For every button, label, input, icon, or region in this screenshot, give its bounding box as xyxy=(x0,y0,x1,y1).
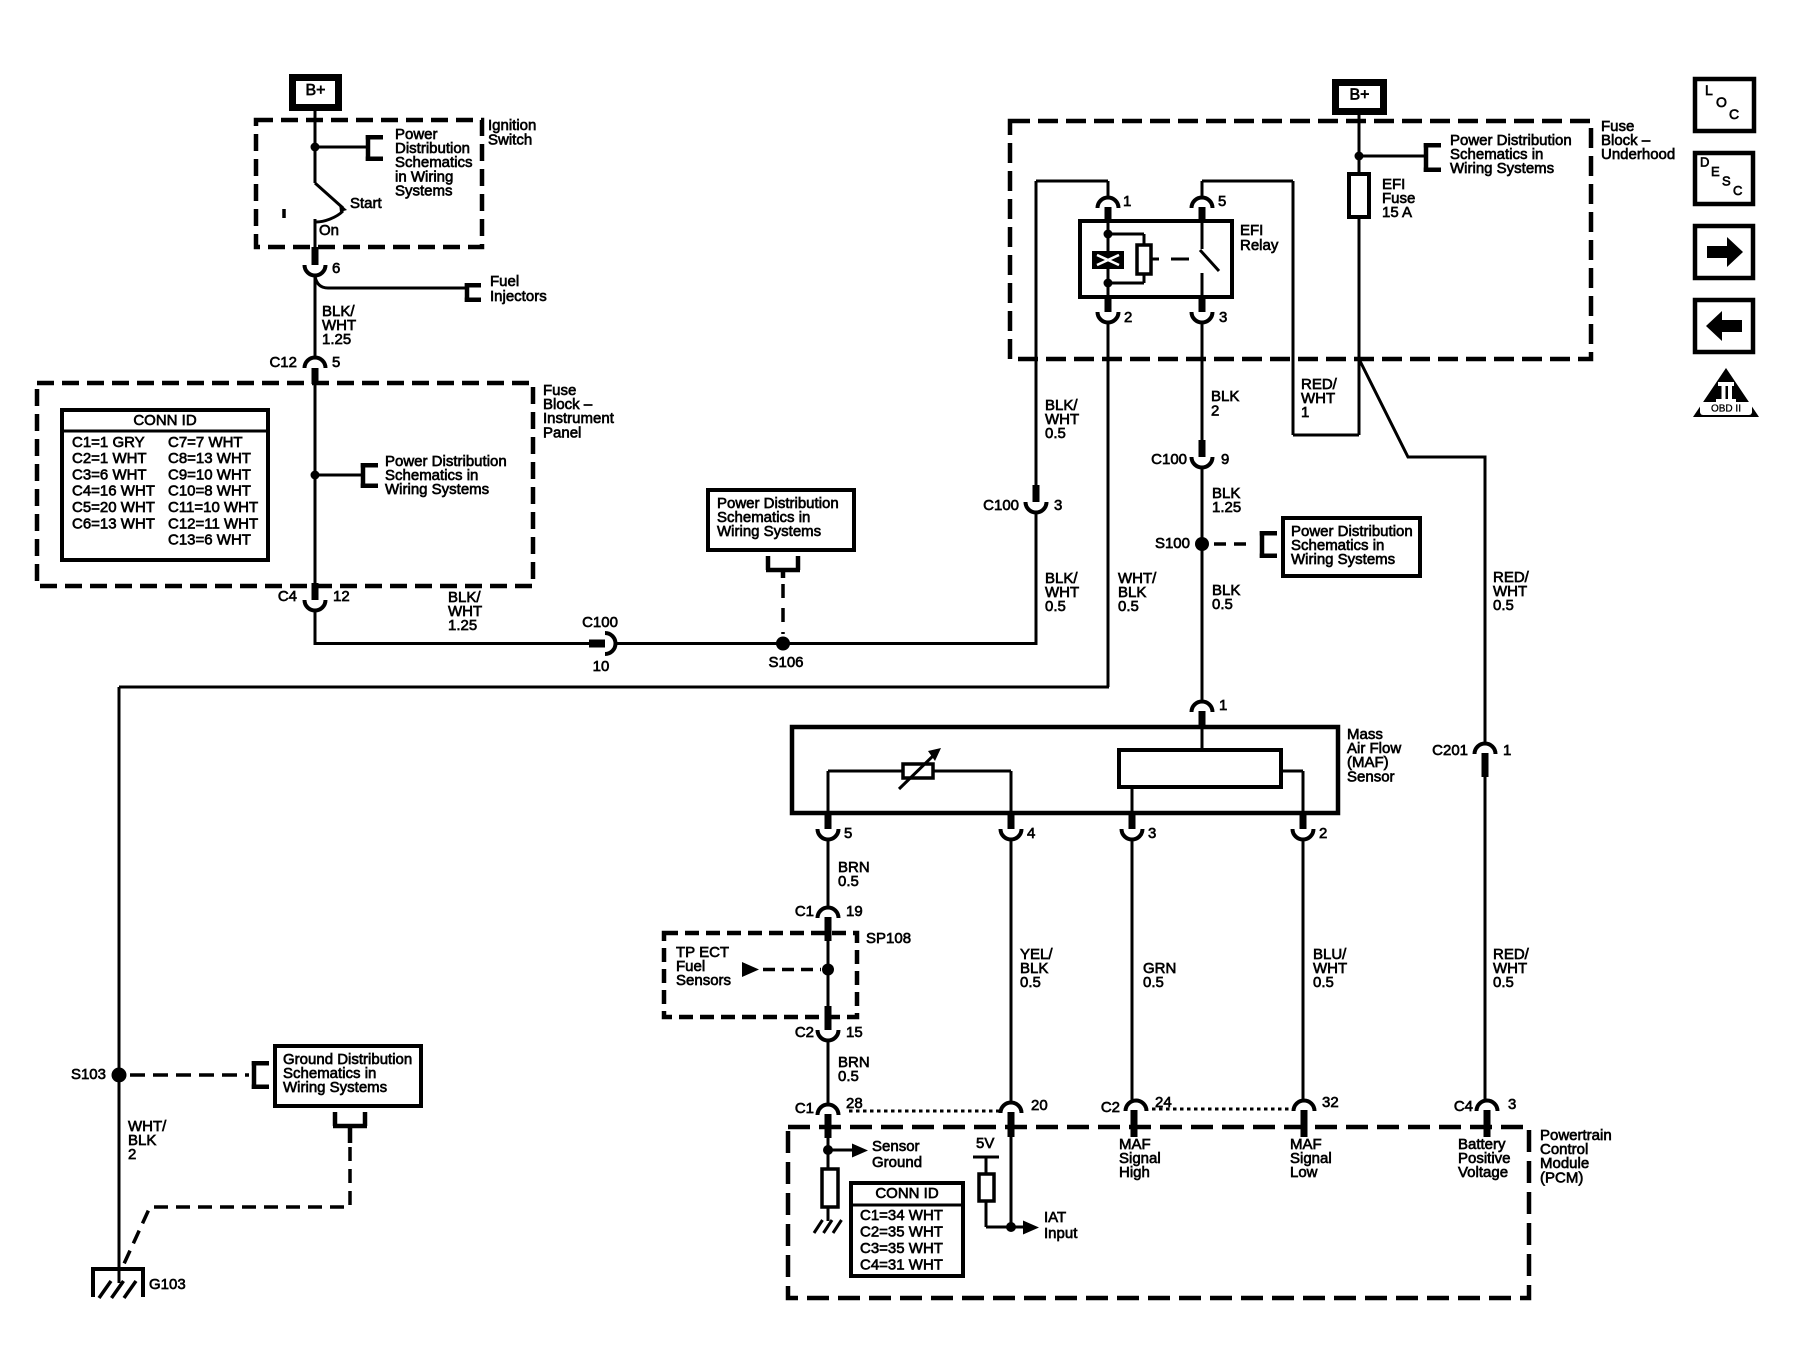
svg-text:G103: G103 xyxy=(149,1276,186,1293)
svg-text:1.25: 1.25 xyxy=(1212,499,1241,516)
svg-text:1: 1 xyxy=(1123,193,1131,210)
svg-text:Wiring Systems: Wiring Systems xyxy=(1450,160,1554,177)
svg-text:5: 5 xyxy=(332,354,340,371)
svg-text:1.25: 1.25 xyxy=(448,617,477,634)
svg-text:Wiring Systems: Wiring Systems xyxy=(717,523,821,540)
svg-text:B+: B+ xyxy=(1349,87,1369,104)
svg-text:Ground: Ground xyxy=(872,1154,922,1171)
svg-text:C: C xyxy=(1729,106,1739,122)
svg-text:Sensor: Sensor xyxy=(872,1138,920,1155)
svg-text:B+: B+ xyxy=(305,82,325,99)
svg-text:1.25: 1.25 xyxy=(322,331,351,348)
svg-text:3: 3 xyxy=(1054,497,1062,514)
svg-text:Sensors: Sensors xyxy=(676,972,731,989)
svg-text:Switch: Switch xyxy=(488,131,532,148)
svg-text:4: 4 xyxy=(1027,825,1035,842)
svg-text:Sensor: Sensor xyxy=(1347,768,1395,785)
svg-text:Voltage: Voltage xyxy=(1458,1164,1508,1181)
svg-text:2: 2 xyxy=(1211,402,1219,419)
svg-text:S106: S106 xyxy=(768,654,803,671)
svg-text:C1: C1 xyxy=(795,1100,814,1117)
svg-text:15: 15 xyxy=(846,1024,863,1041)
svg-text:C8=13 WHT: C8=13 WHT xyxy=(168,450,251,467)
svg-text:SP108: SP108 xyxy=(866,930,911,947)
svg-text:20: 20 xyxy=(1031,1097,1048,1114)
svg-text:19: 19 xyxy=(846,903,863,920)
svg-text:C4: C4 xyxy=(278,588,297,605)
svg-text:Relay: Relay xyxy=(1240,237,1279,254)
svg-text:2: 2 xyxy=(1319,825,1327,842)
svg-text:C2: C2 xyxy=(795,1024,814,1041)
svg-text:0.5: 0.5 xyxy=(1493,597,1514,614)
svg-text:6: 6 xyxy=(332,260,340,277)
svg-text:Systems: Systems xyxy=(395,183,453,200)
svg-text:5: 5 xyxy=(1218,193,1226,210)
svg-text:24: 24 xyxy=(1155,1094,1172,1111)
svg-text:IAT: IAT xyxy=(1044,1209,1066,1226)
svg-text:9: 9 xyxy=(1221,451,1229,468)
svg-text:C2=1 WHT: C2=1 WHT xyxy=(72,450,147,467)
svg-text:C10=8 WHT: C10=8 WHT xyxy=(168,483,251,500)
svg-text:S: S xyxy=(1722,173,1731,188)
svg-text:CONN ID: CONN ID xyxy=(133,412,197,429)
svg-text:32: 32 xyxy=(1322,1094,1339,1111)
svg-text:Wiring Systems: Wiring Systems xyxy=(1291,551,1395,568)
svg-text:C1=1 GRY: C1=1 GRY xyxy=(72,434,145,451)
svg-text:C4=16 WHT: C4=16 WHT xyxy=(72,483,155,500)
svg-text:OBD II: OBD II xyxy=(1711,404,1741,415)
svg-text:C5=20 WHT: C5=20 WHT xyxy=(72,499,155,516)
svg-text:3: 3 xyxy=(1219,309,1227,326)
svg-text:S100: S100 xyxy=(1155,535,1190,552)
svg-text:Injectors: Injectors xyxy=(490,288,547,305)
svg-text:C100: C100 xyxy=(983,497,1019,514)
svg-text:0.5: 0.5 xyxy=(838,873,859,890)
svg-text:Underhood: Underhood xyxy=(1601,146,1675,163)
svg-text:10: 10 xyxy=(593,658,610,675)
svg-text:0.5: 0.5 xyxy=(838,1068,859,1085)
svg-text:Start: Start xyxy=(350,195,383,212)
svg-text:3: 3 xyxy=(1508,1096,1516,1113)
svg-text:C: C xyxy=(1733,183,1742,198)
svg-text:C100: C100 xyxy=(582,614,618,631)
svg-text:C4: C4 xyxy=(1454,1098,1473,1115)
svg-text:1: 1 xyxy=(1503,742,1511,759)
svg-text:0.5: 0.5 xyxy=(1493,974,1514,991)
svg-text:15 A: 15 A xyxy=(1382,204,1412,221)
svg-text:C2=35 WHT: C2=35 WHT xyxy=(860,1223,943,1240)
svg-text:0.5: 0.5 xyxy=(1045,598,1066,615)
svg-text:0.5: 0.5 xyxy=(1020,974,1041,991)
svg-text:C3=6 WHT: C3=6 WHT xyxy=(72,466,147,483)
svg-text:C100: C100 xyxy=(1151,451,1187,468)
svg-text:High: High xyxy=(1119,1164,1150,1181)
svg-text:0.5: 0.5 xyxy=(1143,974,1164,991)
svg-text:C6=13 WHT: C6=13 WHT xyxy=(72,515,155,532)
svg-text:C1: C1 xyxy=(795,903,814,920)
svg-text:C9=10 WHT: C9=10 WHT xyxy=(168,466,251,483)
svg-text:28: 28 xyxy=(846,1095,863,1112)
svg-text:E: E xyxy=(1711,164,1720,179)
svg-text:1: 1 xyxy=(1301,404,1309,421)
svg-text:1: 1 xyxy=(1219,697,1227,714)
svg-text:0.5: 0.5 xyxy=(1212,596,1233,613)
svg-text:C2: C2 xyxy=(1101,1099,1120,1116)
svg-text:C12=11 WHT: C12=11 WHT xyxy=(168,515,258,532)
svg-text:Wiring Systems: Wiring Systems xyxy=(283,1079,387,1096)
svg-text:(PCM): (PCM) xyxy=(1540,1169,1583,1186)
svg-text:12: 12 xyxy=(333,588,350,605)
svg-text:C7=7 WHT: C7=7 WHT xyxy=(168,434,243,451)
svg-text:5V: 5V xyxy=(976,1135,994,1152)
svg-text:C11=10 WHT: C11=10 WHT xyxy=(168,499,258,516)
svg-text:Panel: Panel xyxy=(543,424,581,441)
svg-text:C4=31 WHT: C4=31 WHT xyxy=(860,1257,943,1274)
svg-text:2: 2 xyxy=(1124,309,1132,326)
svg-text:CONN ID: CONN ID xyxy=(875,1185,939,1202)
svg-text:Wiring Systems: Wiring Systems xyxy=(385,481,489,498)
svg-text:C1=34 WHT: C1=34 WHT xyxy=(860,1207,943,1224)
svg-text:0.5: 0.5 xyxy=(1045,425,1066,442)
svg-text:Low: Low xyxy=(1290,1164,1318,1181)
svg-text:On: On xyxy=(319,222,339,239)
svg-text:C3=35 WHT: C3=35 WHT xyxy=(860,1240,943,1257)
svg-text:C12: C12 xyxy=(269,354,297,371)
svg-text:C13=6 WHT: C13=6 WHT xyxy=(168,532,251,549)
svg-text:0.5: 0.5 xyxy=(1313,974,1334,991)
svg-text:O: O xyxy=(1716,94,1727,110)
svg-text:C201: C201 xyxy=(1432,742,1468,759)
svg-text:3: 3 xyxy=(1148,825,1156,842)
svg-text:5: 5 xyxy=(844,825,852,842)
svg-text:2: 2 xyxy=(128,1146,136,1163)
svg-text:D: D xyxy=(1700,154,1709,169)
svg-text:S103: S103 xyxy=(71,1066,106,1083)
svg-text:Input: Input xyxy=(1044,1225,1078,1242)
svg-text:0.5: 0.5 xyxy=(1118,598,1139,615)
svg-text:L: L xyxy=(1705,82,1713,98)
